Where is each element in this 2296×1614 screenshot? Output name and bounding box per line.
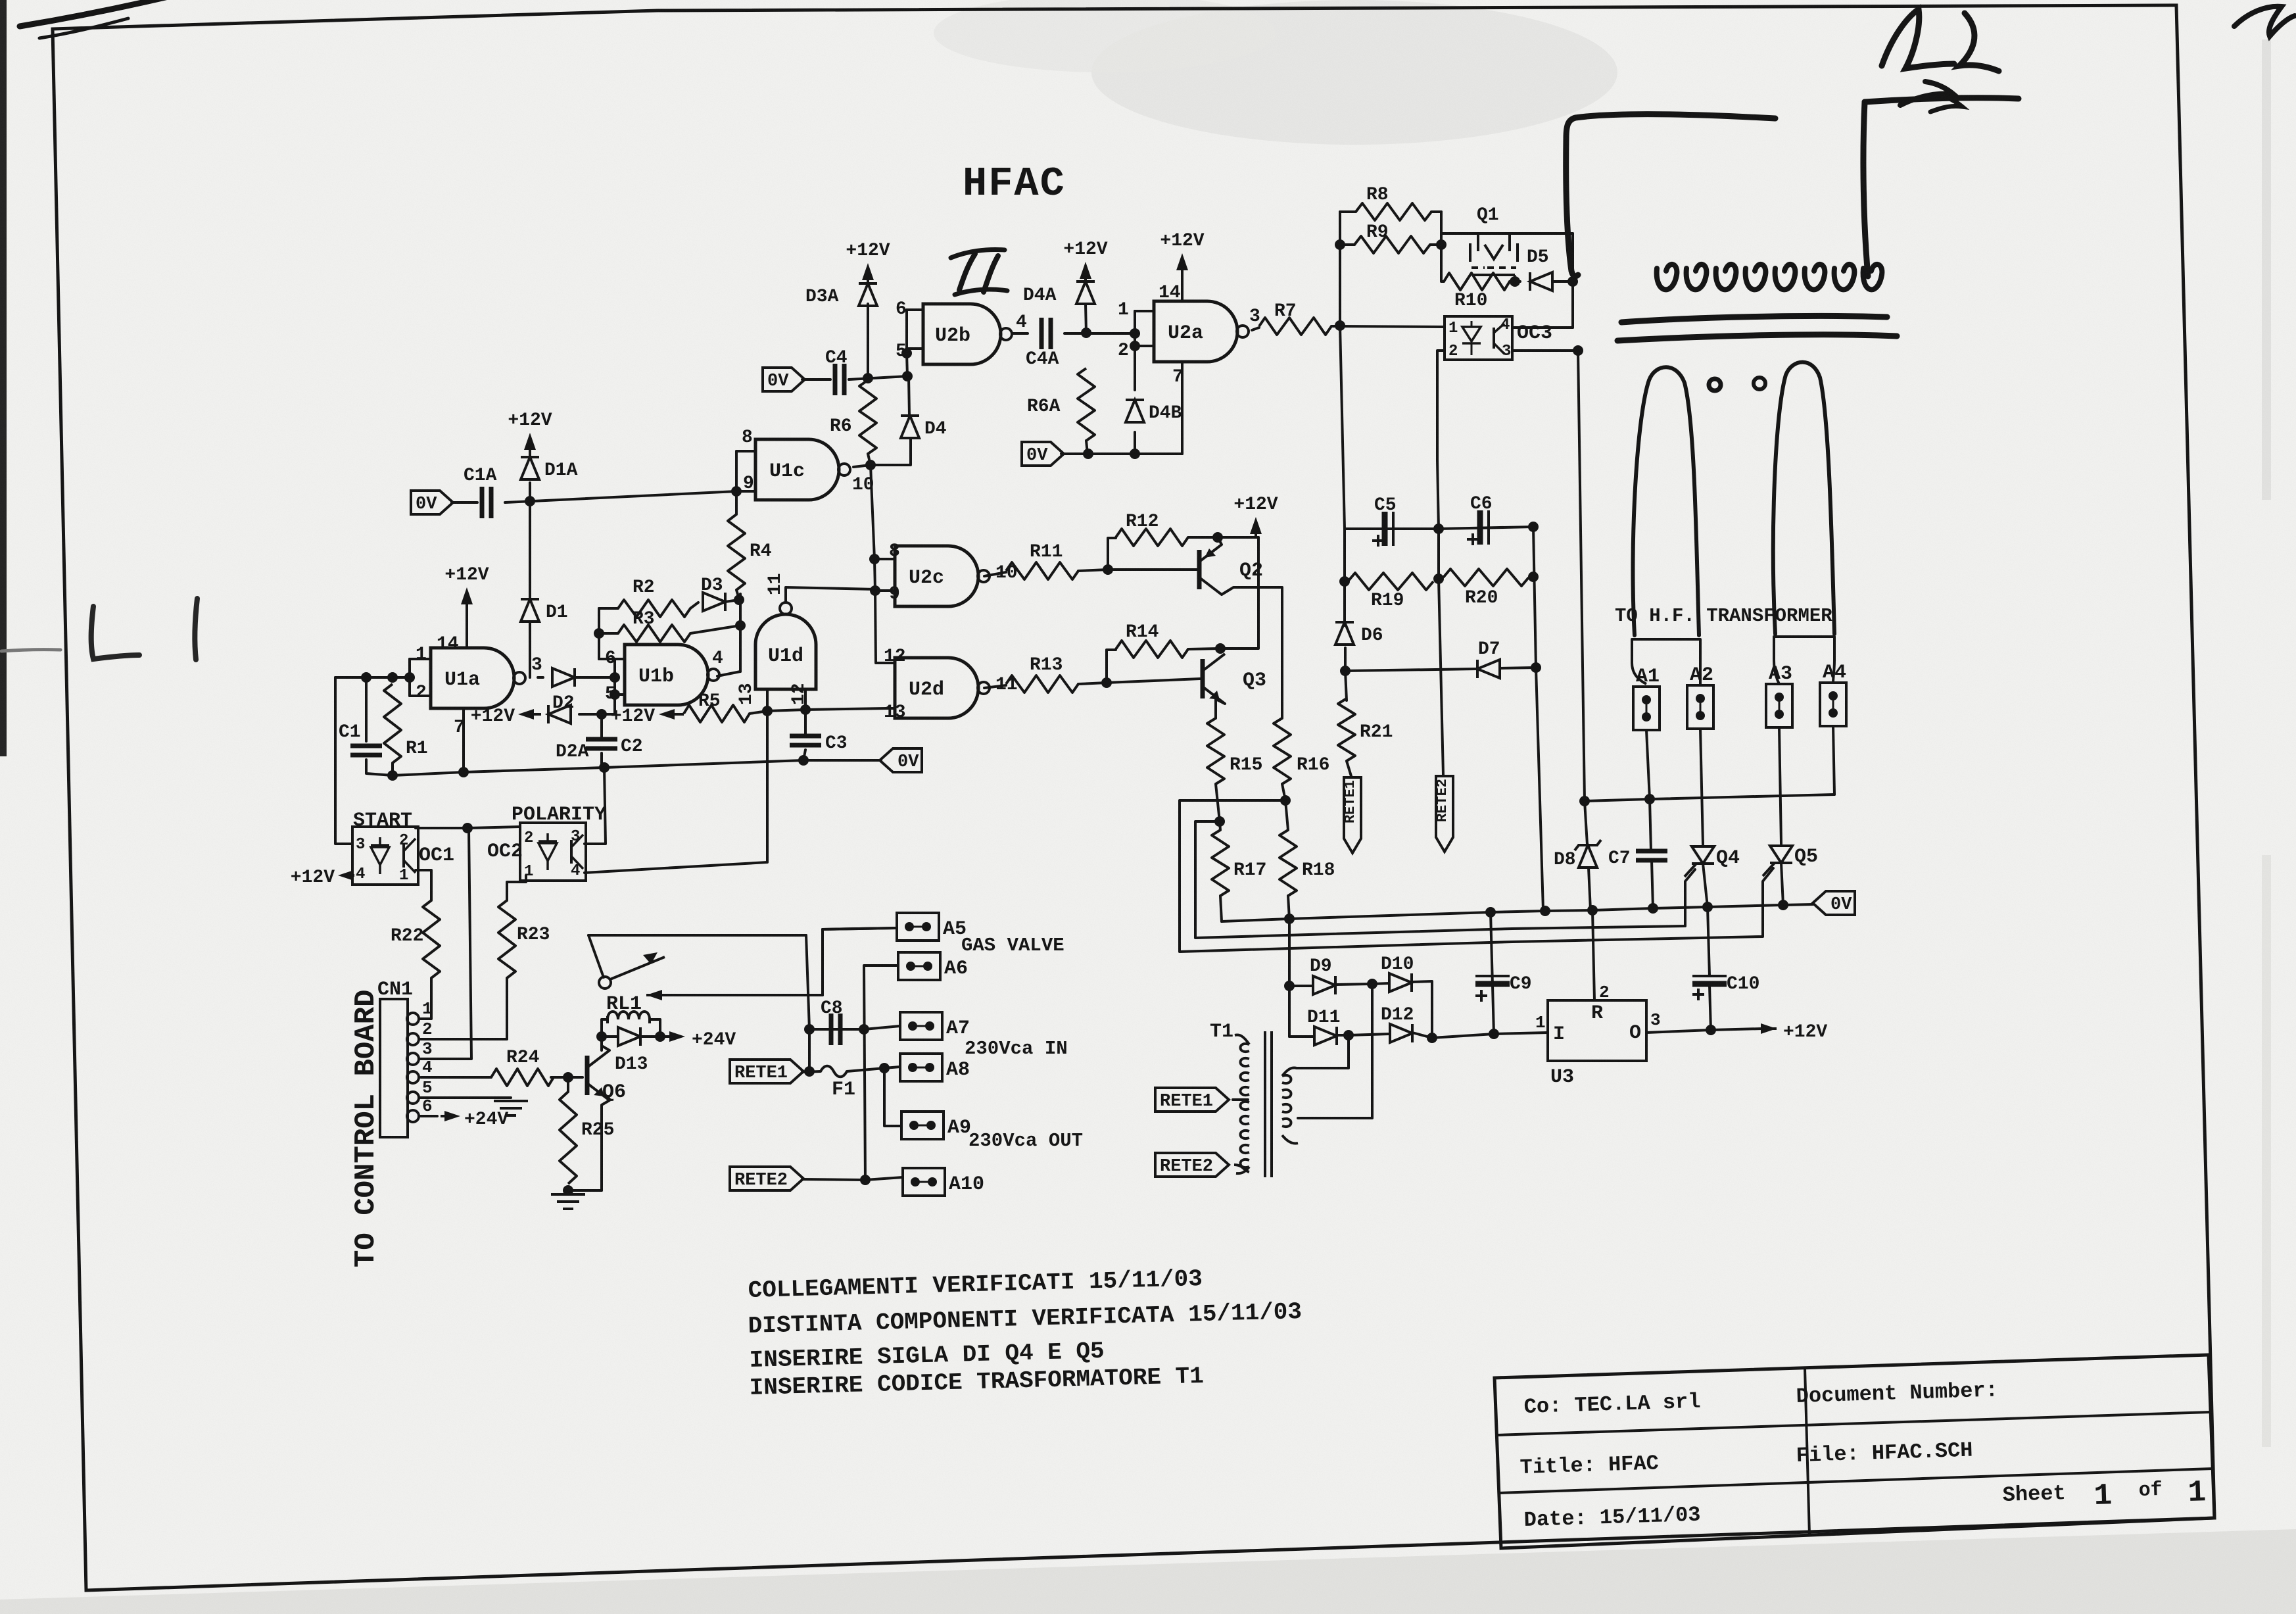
power +12V above D3A (846, 241, 890, 280)
junction C9 bottom (1489, 1029, 1499, 1039)
wire U1a pin7 vertical (462, 710, 465, 772)
title HFAC (963, 160, 1066, 207)
capacitor C2 (586, 737, 643, 757)
junction R1 top (387, 672, 398, 683)
handwritten mark top-left corner (20, 0, 171, 38)
pin 3 label U2a (1249, 306, 1260, 327)
pin 1 CN1 (407, 999, 433, 1025)
wire U1a pin1 stub (410, 658, 431, 660)
handwritten arrow mark (1900, 82, 1962, 112)
pin 6 label U1b (605, 648, 616, 669)
wire U1c out column down (871, 465, 876, 663)
wire R23 top to OC2 pin1 (507, 875, 526, 900)
wire left rail C5 to RETE1 (1340, 326, 1345, 625)
junction D8 wire (1579, 796, 1590, 806)
wire Q6 collector (602, 1037, 610, 1050)
junction C5/C6/OC3pin2 (1433, 524, 1444, 534)
power +12V above D1A (508, 410, 552, 452)
wire D10 row (1372, 983, 1389, 984)
pin R U3 (1591, 1002, 1603, 1025)
resistor R6A (1027, 368, 1095, 441)
wire R6 bottom to U1c out node (868, 454, 871, 465)
diode D3 (701, 575, 725, 611)
resistor R1 (384, 684, 428, 763)
wire R15 bottom (1216, 784, 1220, 821)
titleblock sheet 1 (2093, 1479, 2113, 1513)
wire R4 vertical top (735, 491, 738, 514)
junction OC1 OC2 link (462, 823, 473, 833)
pin 10 label U1c (852, 475, 874, 495)
wire C1A to U1c pin9 (505, 491, 736, 502)
junction R9 left (1335, 239, 1345, 250)
wire D7 to rail (1500, 668, 1536, 668)
label START (353, 810, 412, 832)
wire CN1 pin4 to R24 (421, 1076, 491, 1079)
transistor Q2 (1199, 545, 1263, 595)
relay coil RL1 (608, 1012, 650, 1023)
wire U2a out to R7 (1252, 328, 1259, 330)
pin 11 label U2d (995, 675, 1018, 695)
wire RL1 right bracket (650, 1019, 660, 1037)
handwritten wire left vertical (1566, 114, 1775, 276)
wire U2a input bracket (1134, 311, 1136, 346)
diode D3A (805, 283, 877, 307)
diode D13 (615, 1027, 648, 1075)
pin 1 label U2a (1118, 300, 1129, 320)
wire U2a pin1 stub (1135, 310, 1154, 312)
wire U1c pin8 stub (736, 450, 755, 452)
titleblock File (1796, 1438, 1973, 1468)
junction A1/C7 wire (1644, 794, 1655, 804)
wire U1d pin11 up (786, 587, 875, 602)
wire D1A branch (529, 483, 531, 501)
wire mid vertical secondary (1298, 984, 1372, 1118)
NAND gate U1a (431, 648, 525, 708)
wire RETE1 to F1 (802, 1071, 821, 1072)
wire U2b pin6 stub (907, 308, 923, 311)
wire D7 row (1345, 669, 1478, 671)
pin 13 label U2d (884, 702, 906, 723)
wire D1 to U1a out row (529, 622, 531, 677)
pin 5 label U1b (605, 684, 616, 704)
junction R19 left (1339, 576, 1350, 587)
pin 7 label U2a (1172, 367, 1184, 387)
transformer T1 primary winding (1235, 1035, 1249, 1174)
resistor R3 (618, 609, 690, 642)
junction coil left/D13 (596, 1031, 607, 1042)
pin 3 label U1a (531, 655, 542, 675)
label T1 (1210, 1021, 1233, 1043)
wire Q4 to rail (1703, 864, 1708, 907)
wire D10 right (1412, 981, 1432, 1038)
wire U3 pin2 up (1592, 910, 1594, 1000)
wire C1 bottom (366, 760, 393, 775)
pin 5 CN1 (407, 1078, 433, 1104)
junction R15/R17/gateQ4 (1214, 816, 1225, 827)
junction C4/D3A/R6 (863, 373, 873, 383)
wire RETE1 to T1 (1233, 1098, 1248, 1101)
resistor R24 (491, 1048, 554, 1086)
connector A5 (897, 913, 967, 941)
net tag RETE2 (vertical) (1434, 776, 1453, 852)
wire Q4 gate line (1195, 821, 1695, 938)
wire bottom bus to 0V tag (393, 760, 881, 775)
wire R18 bottom to rail (1288, 896, 1289, 919)
pin I U3 (1553, 1023, 1565, 1046)
transistor Q3 (1203, 654, 1266, 704)
capacitor C4A (1026, 318, 1059, 370)
capacitor C3 (790, 733, 848, 754)
wire 0V rail (1222, 904, 1813, 921)
wire left rail D6 down (1345, 648, 1347, 700)
label GAS VALVE (961, 935, 1064, 956)
wire U1d pin13 down (766, 689, 769, 711)
resistor R12 (1116, 512, 1188, 546)
pin 1 label U1a (416, 645, 427, 665)
wire U1b pin6 stub (615, 658, 625, 660)
power +12V above U2a (1160, 231, 1204, 297)
pin 3 CN1 (407, 1039, 433, 1065)
junction R7/R8R9 rail (1335, 320, 1345, 331)
label CN1 (377, 979, 413, 1001)
junction U1b pin5 (610, 689, 620, 700)
wire C10 vertical (1708, 907, 1710, 976)
resistor R10 (1444, 273, 1510, 311)
label 230Vca OUT (969, 1130, 1083, 1152)
thyristor Q5 (1763, 846, 1818, 876)
wire R7 to OC3 pin1 (1331, 326, 1445, 327)
junction Q3 collector/R14 (1215, 643, 1226, 654)
wire CN1 pin2 to R23 (419, 978, 507, 1039)
connector A10 (903, 1168, 984, 1196)
wire CN1 pin5 gnd (419, 1096, 511, 1099)
fuse F1 (821, 1066, 855, 1101)
junction rail/D8/U3pin2 (1587, 905, 1598, 916)
connector A7 (900, 1012, 970, 1040)
pin 11 label U1d (765, 573, 786, 595)
wire A2 down to Q4 (1700, 729, 1703, 844)
capacitor C9 (1475, 974, 1532, 1002)
wire U1c pin bracket (735, 451, 738, 491)
junction D7 right rail (1531, 662, 1541, 673)
connector A8 (900, 1054, 970, 1081)
wire D13 left (602, 1035, 618, 1038)
label 12 U1d (789, 683, 809, 705)
wire R8R9 left bracket (1339, 212, 1341, 326)
junction rail/Q4/C10 (1702, 902, 1713, 912)
hook A3 (1774, 660, 1779, 684)
junction R25 bottom (563, 1185, 573, 1196)
wire CN1 pin3 riser (419, 829, 471, 1059)
junction D4 top node (902, 371, 913, 381)
handwritten L2 annotation (1882, 9, 1999, 71)
net tag RETE2 (A10) (730, 1167, 803, 1190)
pin 9 label U1c (743, 474, 754, 494)
junction R12/Q2 collector (1212, 532, 1223, 543)
wire R9 right stub (1430, 243, 1441, 246)
diode D12 (1381, 1005, 1414, 1042)
NAND gate U1c (755, 439, 850, 500)
wire R10 drop (1441, 245, 1444, 281)
wire R1 bottom (391, 763, 394, 775)
NAND gate U2a (1154, 301, 1249, 362)
voltage regulator U3 box (1548, 1000, 1646, 1061)
diode D10 (1381, 954, 1414, 992)
wire R5 right (750, 711, 767, 714)
pin 4 CN1 (407, 1058, 433, 1083)
junction R24/R25/Q6 base (563, 1072, 573, 1083)
connector A3 (1766, 663, 1792, 727)
wire down to OC1 pin3 (335, 677, 352, 844)
capacitor C1A (464, 466, 497, 518)
wire D11 row (1289, 1035, 1314, 1038)
wire R18 top (1285, 800, 1288, 830)
wire T1 sec top to D11 row (1297, 1037, 1349, 1068)
wire R2 to D3 (690, 602, 698, 608)
thyristor Q4 (1685, 846, 1740, 877)
diode D1 (521, 599, 568, 623)
wire R14 bracket up (1107, 650, 1116, 683)
junction D9 left (1284, 981, 1295, 991)
pin 8 label U2c (889, 541, 900, 562)
wire RETE2 to T1 (1234, 1165, 1249, 1172)
junction rail/C7/A1 (1648, 903, 1658, 914)
wire U2a pin2 stub (1135, 345, 1154, 347)
NAND gate U1b (625, 645, 719, 705)
wire R16 bottom (1282, 784, 1285, 800)
NAND gate U2b (923, 304, 1012, 364)
pin 1 label OC3 (1448, 320, 1458, 337)
optocoupler OC3 box (1445, 316, 1512, 360)
junction D9/D10 (1367, 979, 1377, 989)
wire D4 branch vertical (909, 376, 909, 415)
resistor R7 (1259, 301, 1331, 335)
wire D9 to D10 (1335, 984, 1372, 985)
resistor R16 (1274, 718, 1329, 784)
titleblock Date (1523, 1503, 1701, 1532)
handwritten small circles on core (1709, 378, 1765, 391)
wire A3 down to Q5 (1779, 727, 1781, 844)
pin 4 label U1b (712, 648, 723, 669)
wire OC3 pin3 down long (1512, 351, 1587, 844)
resistor R19 (1348, 573, 1433, 611)
wire D4A to +12V (1084, 268, 1087, 281)
NAND gate U2c (895, 546, 990, 606)
wire C3 bottom (803, 750, 805, 760)
wire U2d pin12 stub (876, 662, 895, 664)
diode D4 (901, 416, 947, 439)
handwritten mark top-right (2234, 7, 2295, 36)
net tag 0V (U2a) (1022, 442, 1064, 466)
wire U1a inputs to C1 R1 (335, 676, 410, 679)
diode D11 (1307, 1008, 1340, 1045)
wire D9 vertical (1288, 919, 1291, 1037)
wire D3A to +12V arrow (867, 276, 869, 283)
wire C2 bus down to OC2 pin3 (585, 768, 606, 844)
capacitor C4 (825, 348, 848, 395)
wire switch drop (806, 935, 809, 1029)
wire A6 to C8 vertical (864, 966, 898, 1180)
resistor R9 (1354, 222, 1430, 253)
wire emitter to R25 bottom (568, 1189, 602, 1192)
note line 3 (749, 1338, 1105, 1374)
wire D2 to U1b bracket (575, 676, 615, 679)
wire A1 down (1646, 730, 1650, 799)
wire Q2 node down to Q3 collector (1220, 537, 1258, 648)
wire C2 top stub (600, 714, 603, 739)
resistor R6 (830, 380, 876, 454)
junction C8 left (804, 1024, 815, 1035)
wire R11 to junction (1078, 570, 1108, 571)
wire Q2 emitter (1222, 587, 1282, 718)
wire A7 row (864, 1026, 900, 1029)
wire U2b pin5 riser (907, 353, 907, 376)
resistor R4 (728, 514, 772, 590)
label 230Vca IN (965, 1038, 1068, 1060)
wire U2a pin7 (1181, 362, 1184, 454)
wire U2c out to R11 (984, 572, 1006, 576)
wire U1b pin5 stub (615, 693, 625, 696)
pin 14 label U2a (1159, 283, 1181, 303)
junction U1b bracket mid (610, 672, 620, 683)
label 13 U1d (736, 683, 757, 705)
pin 4 label U2b (1016, 312, 1027, 333)
NAND gate U2d (895, 658, 990, 718)
note line 1 (748, 1265, 1203, 1304)
pin 4 label OC3 (1500, 316, 1510, 334)
wire D3A branch vertical (867, 304, 869, 378)
wire R6A bottom to 0V (1086, 441, 1088, 454)
wire 0V to C4 to D3A node (802, 378, 830, 381)
wire OC1-OC2 link (416, 827, 520, 828)
junction C3 bus (798, 755, 809, 766)
wire R4 bottom to D3 node (736, 590, 739, 599)
arrow to RL1 (646, 990, 662, 1000)
wire C10 bottom to +12V line (1710, 985, 1711, 1030)
power +12V above U1a (444, 565, 489, 631)
junction R3 right (735, 620, 746, 631)
wire Q2 collector up (1218, 537, 1222, 545)
wire U2b pins bracket (905, 310, 908, 353)
resistor R22 (391, 900, 440, 978)
junction RETE1 node (804, 1066, 815, 1077)
pin 2 U3 (1599, 983, 1610, 1002)
power +24V arrow (D13) (664, 1030, 736, 1050)
wire C4 to junction (849, 376, 907, 379)
wire C2 bottom (600, 753, 603, 768)
wire U2d out to R13 (984, 685, 1006, 688)
diode D2A (548, 705, 589, 762)
NAND gate U1d (755, 602, 816, 689)
resistor R17 (1212, 830, 1266, 896)
wire C1 top (365, 677, 368, 741)
note line 4 (749, 1363, 1204, 1402)
resistor R14 (1116, 622, 1188, 658)
pin O U3 (1629, 1022, 1641, 1044)
connector A9 (901, 1112, 971, 1139)
titleblock Co (1523, 1390, 1701, 1419)
hook A1 (1632, 663, 1646, 684)
wire R21 to RETE1 tag (1347, 761, 1351, 776)
diode D9 (1310, 956, 1335, 994)
net tag RETE1 (T1) (1155, 1088, 1229, 1112)
wire D5 to right corner (1552, 280, 1573, 283)
wire R12 right to Q2 collector node (1188, 536, 1218, 539)
wire A5 left (823, 928, 897, 929)
junction U2c pin9 (870, 585, 880, 596)
pin 10 label U2c (995, 563, 1018, 583)
junction U2a pin2 wire (1130, 328, 1140, 339)
junction C8 right (859, 1024, 869, 1035)
net tag 0V (C3 row) (880, 748, 922, 772)
capacitor C5 (1372, 495, 1397, 547)
resistor R5 (684, 691, 750, 722)
wire D8 bottom to rail (1589, 868, 1590, 910)
wire R12 bracket up (1108, 538, 1116, 570)
note line 2 (748, 1298, 1302, 1340)
wire D4A branch (1086, 304, 1086, 333)
junction rail/C9 (1485, 907, 1496, 917)
wire D13 right (640, 1035, 660, 1038)
wire U2b out to C4A (1013, 332, 1028, 335)
connector A2 (1687, 664, 1713, 729)
resistor R8 (1356, 185, 1431, 220)
net tag RETE1 (F1) (730, 1060, 803, 1083)
wire D12 right (1412, 1033, 1432, 1038)
wire OC2 pin4 riser (585, 711, 767, 873)
junction U2a pin2/D4B (1130, 341, 1140, 351)
wire R13 to junction (1078, 683, 1107, 684)
junction C1A/D1A (525, 496, 535, 506)
handwritten transformer core lines (1617, 316, 1897, 341)
resistor R11 (1006, 542, 1078, 579)
label OC3 (1517, 322, 1552, 345)
wire bracket A3A4 (1774, 637, 1834, 660)
wire R14 right to Q3 collector (1188, 648, 1220, 649)
wire bracket A1A2 (1632, 639, 1700, 663)
wire Q6 emitter down (602, 1100, 610, 1190)
junction D4B/0V (1130, 449, 1140, 459)
wire U1a out to D2 (538, 676, 543, 679)
junction D10/D12 out (1427, 1033, 1437, 1043)
label RL1 (606, 993, 642, 1015)
junction R9 right (1436, 239, 1447, 250)
label U3 (1550, 1066, 1574, 1088)
diode D4A (1023, 281, 1095, 306)
wire U2a pin14 to +12V (1181, 263, 1184, 301)
wire CN1 pin1 to R22 (419, 978, 431, 1019)
hook A4 (1833, 660, 1834, 683)
pin 1 OC2 (524, 863, 533, 881)
handwritten II mark (951, 250, 1007, 295)
junction rail/Q5 (1778, 900, 1788, 910)
pin 3 label OC3 (1502, 343, 1511, 360)
power +12V arrow (D2A) (471, 706, 541, 727)
pin 4 OC2 (571, 862, 580, 880)
wire R10 to D5 (1510, 280, 1520, 283)
wire right rail down (1533, 527, 1543, 910)
wire R8 left stub (1340, 210, 1356, 213)
wire F1 to A8 (847, 1067, 900, 1071)
wire D1A to +12V (529, 439, 531, 457)
junction R19/R20 (1433, 574, 1444, 584)
wire R3 right (690, 625, 740, 633)
titleblock Title (1519, 1451, 1659, 1480)
junction C2 bottom bus (599, 762, 610, 773)
wire Q5 gate line (1180, 800, 1773, 952)
net tag 0V (C4) (763, 368, 805, 391)
pin 6 CN1 (407, 1096, 433, 1122)
